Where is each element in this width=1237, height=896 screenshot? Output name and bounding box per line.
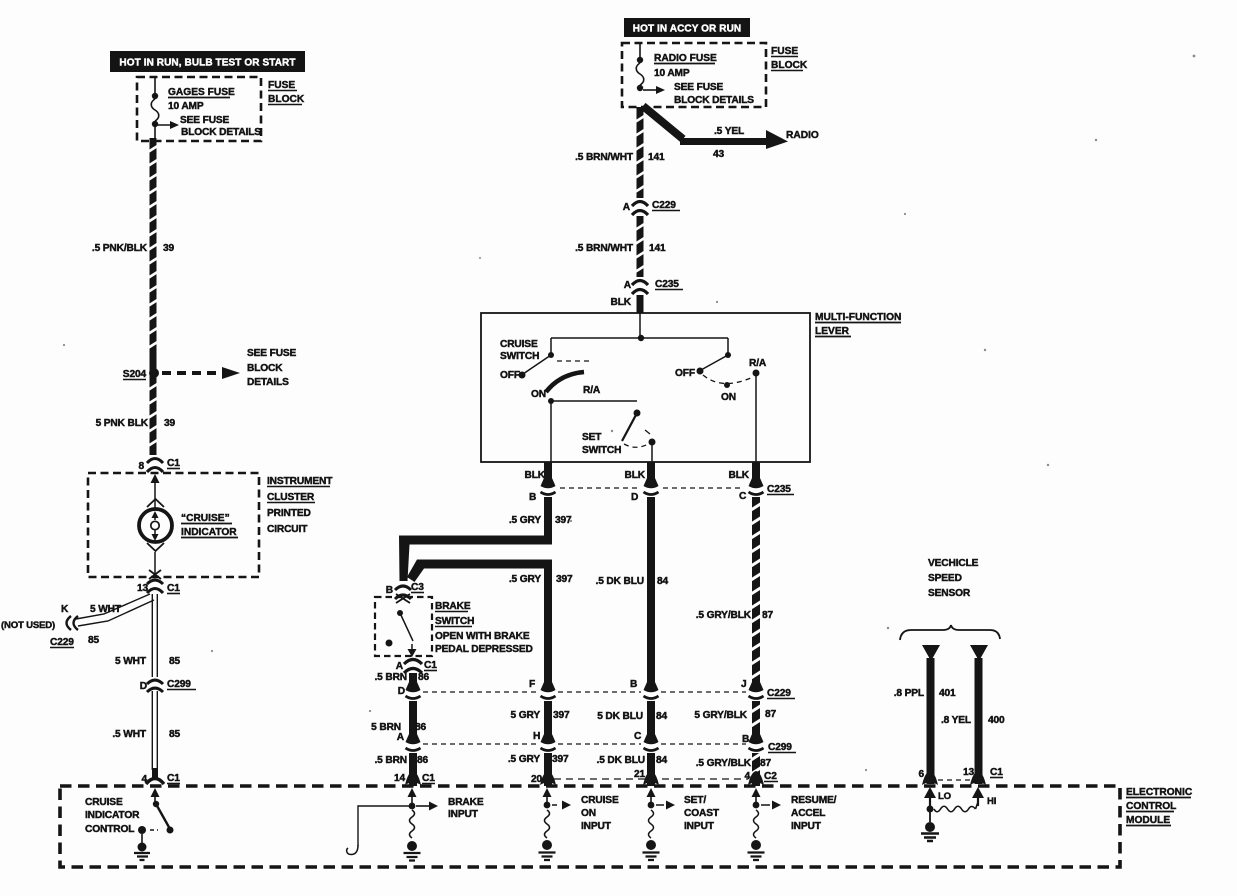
wire .5 GRY 397 L-bends to brake switch xyxy=(399,536,552,582)
svg-text:ON: ON xyxy=(531,389,546,400)
wire in cluster xyxy=(154,482,156,508)
svg-text:.5 BRN/WHT: .5 BRN/WHT xyxy=(575,152,634,163)
label GAGES FUSE xyxy=(168,87,235,98)
svg-text:86: 86 xyxy=(417,755,429,766)
svg-text:86: 86 xyxy=(415,722,427,733)
svg-text:SEE FUSE: SEE FUSE xyxy=(180,115,230,126)
svg-text:SET: SET xyxy=(582,432,602,443)
wire .5 BRN/WHT 141 (striped) xyxy=(637,107,644,198)
dashed connector line between 6 and 13 xyxy=(938,779,970,781)
svg-text:INDICATOR: INDICATOR xyxy=(181,527,237,538)
svg-text:39: 39 xyxy=(164,418,176,429)
lamp CRUISE INDICATOR xyxy=(139,509,172,542)
svg-text:RADIO: RADIO xyxy=(786,130,819,141)
svg-text:85: 85 xyxy=(88,635,100,646)
svg-text:C235: C235 xyxy=(655,279,679,290)
svg-text:A: A xyxy=(623,202,631,213)
wire into box xyxy=(639,313,641,338)
svg-text:CLUSTER: CLUSTER xyxy=(267,492,315,503)
VSS wire .8 YEL 400 xyxy=(970,645,988,661)
resume accel input xyxy=(755,793,757,806)
svg-text:FUSE: FUSE xyxy=(771,46,798,57)
svg-text:C1: C1 xyxy=(167,583,180,594)
svg-text:C: C xyxy=(739,491,747,502)
svg-text:5 GRY: 5 GRY xyxy=(511,710,541,721)
svg-text:INSTRUMENT: INSTRUMENT xyxy=(267,476,333,487)
svg-text:13: 13 xyxy=(963,767,975,778)
svg-text:86: 86 xyxy=(418,672,430,683)
fuse block 2 box xyxy=(622,43,766,107)
svg-text:K: K xyxy=(61,604,69,615)
svg-text:CRUISE: CRUISE xyxy=(85,797,123,808)
svg-text:ON: ON xyxy=(721,392,736,403)
dashed arrow to see fuse block details xyxy=(162,371,222,375)
svg-text:HI: HI xyxy=(987,796,997,807)
svg-text:C299: C299 xyxy=(768,742,792,753)
brake input xyxy=(411,793,413,806)
svg-text:BLOCK DETAILS: BLOCK DETAILS xyxy=(674,95,754,106)
svg-text:87: 87 xyxy=(760,758,772,769)
svg-text:HOT IN ACCY OR RUN: HOT IN ACCY OR RUN xyxy=(633,24,741,35)
svg-text:87: 87 xyxy=(762,610,774,621)
svg-text:21: 21 xyxy=(634,769,646,780)
svg-text:PRINTED: PRINTED xyxy=(267,508,311,519)
svg-text:.5 WHT: .5 WHT xyxy=(112,729,147,740)
fuse RADIO FUSE 10A xyxy=(636,63,644,85)
svg-text:141: 141 xyxy=(648,152,665,163)
ground cruise indicator control xyxy=(141,834,143,844)
svg-text:5 WHT: 5 WHT xyxy=(115,656,147,667)
svg-text:C1: C1 xyxy=(167,773,180,784)
wire into fuse xyxy=(154,78,156,94)
svg-text:.5 BRN: .5 BRN xyxy=(375,672,408,683)
cruise indicator control xyxy=(85,797,140,835)
svg-text:84: 84 xyxy=(656,711,668,722)
svg-text:C2: C2 xyxy=(764,771,777,782)
svg-text:SWITCH: SWITCH xyxy=(500,351,539,362)
cruise on input xyxy=(546,793,548,806)
arrow see fuse block details xyxy=(643,89,656,91)
svg-text:SWITCH: SWITCH xyxy=(435,616,474,627)
svg-text:BLK: BLK xyxy=(625,470,646,481)
svg-text:ACCEL: ACCEL xyxy=(791,808,825,819)
dashed connector line 20-21-4 xyxy=(554,778,748,780)
connector marks at C229 row xyxy=(405,690,764,701)
svg-text:“CRUISE”: “CRUISE” xyxy=(181,513,230,524)
label 10 AMP xyxy=(168,101,204,112)
svg-text:CIRCUIT: CIRCUIT xyxy=(267,524,308,535)
node dot xyxy=(152,121,158,127)
row C299 xyxy=(423,743,746,745)
svg-text:13: 13 xyxy=(137,583,149,594)
label 5 PNK BLK 39 xyxy=(96,418,176,429)
wire .5 WHT 85 xyxy=(112,729,180,740)
wire .5 BRN 86 xyxy=(409,673,417,786)
svg-text:5 DK BLU: 5 DK BLU xyxy=(597,711,643,722)
connector A C1 below brake switch xyxy=(404,660,422,665)
svg-text:.5 YEL: .5 YEL xyxy=(714,126,744,137)
svg-text:MULTI-FUNCTION: MULTI-FUNCTION xyxy=(815,312,901,323)
svg-text:RADIO FUSE: RADIO FUSE xyxy=(654,53,717,64)
connector D C299 xyxy=(145,677,165,691)
svg-text:SEE FUSE: SEE FUSE xyxy=(674,82,724,93)
svg-text:BLOCK: BLOCK xyxy=(771,60,808,71)
svg-text:B: B xyxy=(630,679,637,690)
svg-text:85: 85 xyxy=(169,656,181,667)
svg-text:A: A xyxy=(624,280,632,291)
wire .5 YEL 43 branch to radio xyxy=(643,106,683,139)
svg-text:84: 84 xyxy=(656,755,668,766)
svg-text:.5 PNK/BLK: .5 PNK/BLK xyxy=(92,243,148,254)
svg-text:H: H xyxy=(533,731,540,742)
svg-text:BLOCK: BLOCK xyxy=(247,363,283,374)
wire BLK D xyxy=(647,462,655,786)
svg-text:84: 84 xyxy=(657,576,669,587)
connector marks on wires at C235 row xyxy=(540,486,764,497)
splice S204 xyxy=(149,368,159,378)
svg-text:141: 141 xyxy=(649,243,666,254)
svg-text:.5 DK BLU: .5 DK BLU xyxy=(596,576,644,587)
connector 4 C1 into ECM xyxy=(152,768,158,778)
svg-text:DETAILS: DETAILS xyxy=(247,377,289,388)
svg-text:HOT IN RUN, BULB TEST OR START: HOT IN RUN, BULB TEST OR START xyxy=(119,58,295,69)
svg-text:BLK: BLK xyxy=(729,470,750,481)
svg-text:BRAKE: BRAKE xyxy=(448,797,484,808)
svg-text:MODULE: MODULE xyxy=(1126,815,1170,826)
svg-text:397: 397 xyxy=(553,710,570,721)
svg-text:.8 YEL: .8 YEL xyxy=(941,715,971,726)
instrument cluster printed circuit box xyxy=(88,473,259,577)
node dot xyxy=(152,93,158,99)
node dot xyxy=(638,335,644,341)
svg-text:C1: C1 xyxy=(422,773,435,784)
svg-text:400: 400 xyxy=(988,715,1005,726)
svg-text:PEDAL DEPRESSED: PEDAL DEPRESSED xyxy=(435,644,533,655)
wire .5 PNK/BLK 39 (striped) xyxy=(150,138,157,455)
svg-text:CONTROL: CONTROL xyxy=(1126,801,1176,812)
wire branch K (not used) xyxy=(76,594,154,626)
connector A C235 xyxy=(632,281,648,286)
svg-text:SWITCH: SWITCH xyxy=(582,445,621,456)
svg-text:5 WHT: 5 WHT xyxy=(90,604,122,615)
wire 5 WHT 85 (double line) xyxy=(152,594,157,770)
svg-text:BLK: BLK xyxy=(611,297,632,308)
wire BLK B xyxy=(544,462,552,538)
svg-text:14: 14 xyxy=(394,773,406,784)
svg-text:SET/: SET/ xyxy=(684,795,706,806)
fuse block 1 box xyxy=(137,77,261,141)
svg-text:.5 GRY: .5 GRY xyxy=(508,754,540,765)
svg-text:6: 6 xyxy=(918,769,924,780)
svg-text:397: 397 xyxy=(552,754,569,765)
svg-text:43: 43 xyxy=(713,149,725,160)
svg-text:FUSE: FUSE xyxy=(268,80,295,91)
svg-text:INPUT: INPUT xyxy=(581,821,612,832)
ECM box xyxy=(60,786,1120,867)
svg-text:.8 PPL: .8 PPL xyxy=(894,688,924,699)
arrow see fuse block details xyxy=(155,125,170,139)
VSS LO/HI inputs xyxy=(929,793,931,808)
wire .5 BRN/WHT 141 lower xyxy=(637,216,644,277)
brace xyxy=(900,625,1000,640)
svg-text:(NOT USED): (NOT USED) xyxy=(1,620,55,631)
wire into radio fuse xyxy=(639,44,641,58)
svg-text:BLOCK DETAILS: BLOCK DETAILS xyxy=(181,127,261,138)
node dot ON xyxy=(548,398,554,404)
svg-text:BRAKE: BRAKE xyxy=(435,601,471,612)
wire internal bus xyxy=(551,337,728,339)
svg-text:5 PNK BLK: 5 PNK BLK xyxy=(96,418,149,429)
svg-text:A: A xyxy=(397,732,405,743)
label FUSE BLOCK 1 xyxy=(268,80,305,105)
label SEE FUSE BLOCK DETAILS xyxy=(180,115,261,138)
cruise switch left xyxy=(550,338,552,354)
svg-text:SPEED: SPEED xyxy=(928,573,962,584)
svg-text:ELECTRONIC: ELECTRONIC xyxy=(1126,787,1193,798)
wire BLK C xyxy=(752,462,760,786)
svg-text:GAGES FUSE: GAGES FUSE xyxy=(168,87,235,98)
label 5 WHT 85 xyxy=(115,656,181,667)
wire BLK into lever xyxy=(637,295,644,313)
svg-text:5 GRY/BLK: 5 GRY/BLK xyxy=(694,710,747,721)
set coast input xyxy=(650,793,652,806)
svg-text:87: 87 xyxy=(765,709,777,720)
striped pattern on GRY/BLK wire xyxy=(751,503,762,774)
svg-text:LO: LO xyxy=(938,791,952,802)
node dot xyxy=(637,57,643,63)
svg-text:.5 BRN: .5 BRN xyxy=(375,755,408,766)
svg-text:BLOCK: BLOCK xyxy=(268,94,305,105)
wire labels DK BLU upper xyxy=(596,576,669,587)
label .5 PNK/BLK 39 xyxy=(92,243,175,254)
svg-text:10 AMP: 10 AMP xyxy=(654,68,690,79)
brake switch contacts xyxy=(397,610,403,616)
svg-text:A: A xyxy=(396,661,404,672)
svg-text:SENSOR: SENSOR xyxy=(928,588,971,599)
connector 8 C1 xyxy=(146,455,164,469)
svg-text:BLK: BLK xyxy=(525,470,546,481)
cruise switch right xyxy=(727,338,729,354)
svg-text:LEVER: LEVER xyxy=(815,326,850,337)
svg-text:4: 4 xyxy=(141,774,147,785)
svg-text:CONTROL: CONTROL xyxy=(85,824,134,835)
svg-text:INDICATOR: INDICATOR xyxy=(85,810,140,821)
svg-text:397: 397 xyxy=(555,515,572,526)
header bar HOT IN RUN xyxy=(110,51,305,72)
svg-text:.5 GRY: .5 GRY xyxy=(509,515,541,526)
svg-text:85: 85 xyxy=(169,729,181,740)
SECTION: vehicle speed sensor xyxy=(928,558,979,599)
svg-text:C1: C1 xyxy=(990,767,1003,778)
svg-text:R/A: R/A xyxy=(749,358,767,369)
VSS wire .8 PPL 401 xyxy=(922,645,940,661)
svg-text:CRUISE: CRUISE xyxy=(500,339,538,350)
connector 13 C1 xyxy=(147,580,163,584)
connector marks at C299 row xyxy=(405,742,764,753)
svg-text:C1: C1 xyxy=(424,660,437,671)
svg-text:397: 397 xyxy=(556,574,573,585)
connector row C235 xyxy=(560,487,744,489)
svg-text:.5 GRY/BLK: .5 GRY/BLK xyxy=(696,610,752,621)
svg-text:D: D xyxy=(398,686,405,697)
svg-text:S204: S204 xyxy=(123,369,147,380)
svg-text:C3: C3 xyxy=(411,582,424,593)
svg-text:B: B xyxy=(386,585,393,596)
svg-text:R/A: R/A xyxy=(583,385,601,396)
mid labels xyxy=(394,709,777,785)
svg-text:J: J xyxy=(741,679,747,690)
multi-function lever box xyxy=(481,313,810,462)
set switch xyxy=(634,410,641,417)
svg-text:.5 GRY/BLK: .5 GRY/BLK xyxy=(696,758,752,769)
svg-text:OPEN WITH BRAKE: OPEN WITH BRAKE xyxy=(435,631,530,642)
svg-text:ON: ON xyxy=(581,808,596,819)
svg-text:C229: C229 xyxy=(767,688,791,699)
svg-text:OFF: OFF xyxy=(675,368,695,379)
svg-text:F: F xyxy=(529,679,535,690)
wiper arc xyxy=(546,372,584,392)
svg-text:C235: C235 xyxy=(767,484,791,495)
svg-text:COAST: COAST xyxy=(684,808,720,819)
svg-text:OFF: OFF xyxy=(500,370,520,381)
brake switch box xyxy=(375,597,432,656)
svg-text:8: 8 xyxy=(138,461,144,472)
svg-text:.5 BRN/WHT: .5 BRN/WHT xyxy=(575,243,634,254)
wire labels GRY/BLK upper xyxy=(696,610,774,621)
svg-text:C229: C229 xyxy=(652,200,676,211)
svg-text:SEE FUSE: SEE FUSE xyxy=(247,348,297,359)
svg-text:B: B xyxy=(529,492,536,503)
svg-text:C: C xyxy=(634,731,642,742)
svg-text:C299: C299 xyxy=(167,679,191,690)
header bar HOT IN ACCY OR RUN xyxy=(624,18,750,37)
connector B C3 xyxy=(394,582,412,598)
svg-text:D: D xyxy=(631,492,638,503)
svg-text:39: 39 xyxy=(163,243,175,254)
svg-text:INPUT: INPUT xyxy=(791,821,822,832)
connector A C229 xyxy=(632,202,648,207)
svg-text:C1: C1 xyxy=(167,458,180,469)
svg-text:D: D xyxy=(140,681,147,692)
svg-text:401: 401 xyxy=(939,688,956,699)
ECM border connector blobs 14 20 21 4 6 13 xyxy=(405,771,986,785)
svg-text:INPUT: INPUT xyxy=(448,809,479,820)
row C229 xyxy=(423,691,746,693)
svg-text:10 AMP: 10 AMP xyxy=(168,101,204,112)
connector K C229 not used xyxy=(67,616,72,630)
svg-text:RESUME/: RESUME/ xyxy=(791,795,837,806)
svg-text:C229: C229 xyxy=(50,637,74,648)
node dot xyxy=(637,85,643,91)
svg-text:.5 GRY: .5 GRY xyxy=(509,574,541,585)
svg-text:VECHICLE: VECHICLE xyxy=(928,558,979,569)
svg-text:.5 DK BLU: .5 DK BLU xyxy=(597,755,645,766)
svg-text:CRUISE: CRUISE xyxy=(581,795,619,806)
svg-text:INPUT: INPUT xyxy=(684,821,715,832)
fuse GAGES FUSE 10A xyxy=(151,99,159,121)
